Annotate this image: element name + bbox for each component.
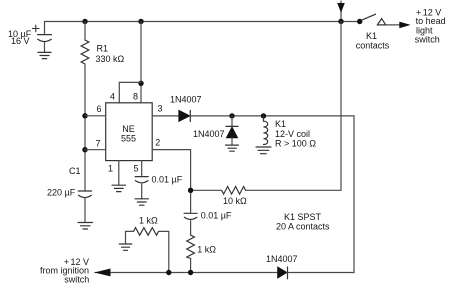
wire bottom rail right of D3 xyxy=(288,272,355,274)
svg-text:6: 6 xyxy=(97,104,102,114)
IC NE555 timer box xyxy=(106,103,153,161)
diode D3 cathode bar xyxy=(287,267,289,279)
diode D1 cathode bar xyxy=(189,110,191,121)
diode D2 1N4007 clamp triangle xyxy=(226,127,237,138)
ground below 10uF capacitor xyxy=(38,52,51,58)
arrowhead left to ignition xyxy=(94,269,110,277)
svg-text:K1 SPST: K1 SPST xyxy=(284,212,322,222)
svg-text:R > 100 Ω: R > 100 Ω xyxy=(275,138,316,148)
svg-text:8: 8 xyxy=(133,92,138,102)
wire pin 1 xyxy=(118,161,120,185)
wire to head light switch xyxy=(386,24,401,26)
diode D1 1N4007 series xyxy=(179,110,190,121)
node top-left junction xyxy=(82,19,87,24)
svg-text:switch: switch xyxy=(415,34,440,44)
capacitor 0.01uF pin5 plates xyxy=(135,177,148,183)
ground pin5 cap xyxy=(135,199,149,205)
node bottom rail junction 1 xyxy=(166,270,171,275)
svg-text:3: 3 xyxy=(158,104,163,114)
node pin8 riser junction on rail xyxy=(138,19,143,24)
svg-text:12-V coil: 12-V coil xyxy=(275,129,310,139)
capacitor 10uF bottom lead xyxy=(44,43,46,53)
capacitor C1 220uF plates xyxy=(78,191,91,198)
wire pin 3 output xyxy=(152,115,179,117)
node K1 coil junction xyxy=(261,113,266,118)
svg-text:K1: K1 xyxy=(275,119,286,129)
svg-text:1: 1 xyxy=(108,163,113,173)
wire pin 2 xyxy=(152,150,190,213)
resistor 10k zigzag xyxy=(222,187,246,195)
svg-text:1 kΩ: 1 kΩ xyxy=(197,245,216,255)
capacitor 0.01uF riser plates xyxy=(184,213,197,219)
wire feed arrow from battery (top right) xyxy=(340,1,342,22)
wire output line to right riser xyxy=(190,115,354,117)
relay switch K1 contacts pivot xyxy=(357,19,362,24)
resistor R1 330k lead xyxy=(84,22,86,41)
capacitor 10uF plates xyxy=(38,35,52,42)
capacitor 10uF 16V positive lead xyxy=(44,22,46,35)
wire top +12V rail xyxy=(45,21,360,23)
svg-text:switch: switch xyxy=(64,275,89,285)
svg-text:555: 555 xyxy=(121,133,136,143)
svg-text:0.01 µF: 0.01 µF xyxy=(201,210,232,220)
svg-text:4: 4 xyxy=(110,92,115,102)
svg-text:330 kΩ: 330 kΩ xyxy=(96,54,125,64)
node pin4/pin8 loop junction xyxy=(138,81,143,86)
wire bottom rail from ignition xyxy=(95,272,278,274)
wire pin 6 xyxy=(85,115,106,117)
wire clamp diode bottom lead xyxy=(231,138,233,145)
ground clamp diode xyxy=(226,145,239,151)
svg-text:1N4007: 1N4007 xyxy=(266,254,298,264)
wire pin 4 reset loop xyxy=(119,82,141,102)
svg-text:220 µF: 220 µF xyxy=(47,188,76,198)
wire 1k to bottom rail xyxy=(190,259,192,273)
wire 10k riser from top rail xyxy=(246,22,341,191)
arrowhead down on feed wire xyxy=(337,3,345,13)
svg-text:1N4007: 1N4007 xyxy=(170,95,202,105)
resistor 1k vertical zigzag xyxy=(187,235,195,259)
svg-text:R1: R1 xyxy=(97,44,109,54)
ground pin 1 xyxy=(112,185,126,191)
node top-right junction xyxy=(338,19,343,24)
svg-text:0.01 µF: 0.01 µF xyxy=(152,175,183,185)
svg-text:16 V: 16 V xyxy=(11,36,30,46)
node pin6 junction xyxy=(82,113,87,118)
node bottom rail junction 2 xyxy=(188,270,193,275)
wire 1k right lead to bottom rail xyxy=(159,231,169,272)
wire right riser output to bottom rail xyxy=(353,116,355,273)
wire pin 5 xyxy=(141,161,143,177)
ground 1k horizontal xyxy=(119,244,132,250)
wire 1k left lead to ground xyxy=(126,231,134,243)
wire 10k to pin2 riser xyxy=(191,189,221,191)
svg-text:contacts: contacts xyxy=(356,41,390,51)
svg-text:5: 5 xyxy=(134,163,139,173)
capacitor C1 bottom lead xyxy=(84,199,86,223)
relay K1 coil xyxy=(264,116,268,145)
ground below C1 xyxy=(78,223,93,230)
ground K1 coil xyxy=(256,147,271,154)
arrowhead right to headlight xyxy=(399,22,410,29)
capacitor 10uF plus sign xyxy=(33,25,40,32)
svg-text:1 kΩ: 1 kΩ xyxy=(139,215,158,225)
node pin7 junction xyxy=(82,147,87,152)
wire timing node vertical (R1 bottom to C1) xyxy=(84,64,86,191)
resistor 1k horizontal zigzag xyxy=(134,228,159,236)
svg-text:20 A contacts: 20 A contacts xyxy=(276,222,330,232)
wire pin 7 xyxy=(85,149,106,151)
capacitor 0.01uF pin5 bottom lead xyxy=(141,184,143,199)
wire pin 8 riser xyxy=(140,22,142,103)
wire clamp diode top lead xyxy=(231,116,233,126)
node clamp diode junction xyxy=(229,113,234,118)
svg-text:7: 7 xyxy=(96,139,101,149)
node 10k junction on pin2 riser xyxy=(188,188,193,193)
diode D3 1N4007 bottom triangle xyxy=(278,267,287,278)
svg-text:C1: C1 xyxy=(69,166,81,176)
switch fixed contact triangle xyxy=(377,19,385,25)
svg-text:10 kΩ: 10 kΩ xyxy=(223,196,247,206)
resistor R1 zigzag xyxy=(81,40,89,64)
svg-text:K1: K1 xyxy=(366,31,377,41)
svg-text:1N4007: 1N4007 xyxy=(193,129,225,139)
svg-text:2: 2 xyxy=(155,137,160,147)
wire riser cap to 1k xyxy=(190,221,192,235)
switch blade xyxy=(362,14,376,20)
diode D2 1N4007 clamp cathode bar xyxy=(226,125,238,127)
